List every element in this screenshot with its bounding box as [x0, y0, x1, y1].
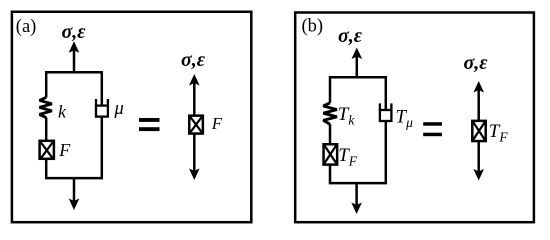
panel (a) frame [12, 12, 251, 222]
equivalent fractional element T_F box (b) [472, 121, 485, 141]
svg-text:σ,ε: σ,ε [464, 52, 489, 74]
wire: bottom bar with branch stubs (b) [330, 121, 386, 184]
wire: top bar with branch stubs (a) [46, 72, 102, 105]
svg-text:μ: μ [114, 99, 124, 119]
wire: bottom bar with branch stubs (a) [46, 117, 102, 179]
panel (b) frame [295, 13, 534, 223]
svg-text:F: F [211, 114, 223, 133]
svg-text:F: F [58, 140, 71, 160]
wire: left branch between spring and T_F box (b) [329, 124, 332, 144]
fractional element F box (a) [40, 141, 54, 159]
equals sign (a) [139, 118, 160, 131]
equals sign (b) [423, 122, 442, 136]
svg-text:(a): (a) [16, 17, 37, 37]
fractional element T_F box (b) [324, 144, 338, 164]
equivalent top arrow (a) [189, 74, 200, 116]
dashpot mu (a) [96, 99, 108, 117]
wire: left branch between spring and F box (a) [45, 118, 48, 141]
equivalent fractional element F box (a) [189, 116, 203, 134]
equivalent top arrow (b) [473, 81, 484, 122]
equivalent bottom arrow (a) [189, 134, 200, 181]
svg-text:σ,ε: σ,ε [338, 25, 363, 47]
spring Tk (b) [323, 103, 337, 124]
spring k (a) [40, 97, 52, 117]
bottom load arrow (a) [69, 178, 80, 210]
wire: top bar with branch stubs (b) [330, 77, 386, 110]
svg-text:σ,ε: σ,ε [62, 21, 87, 43]
svg-text:k: k [58, 102, 67, 122]
top load arrow (a) [69, 41, 80, 72]
svg-text:(b): (b) [302, 16, 324, 36]
bottom load arrow (b) [351, 183, 362, 214]
top load arrow (b) [352, 48, 363, 78]
dashpot T_mu (b) [380, 103, 392, 121]
svg-text:σ,ε: σ,ε [181, 49, 206, 71]
equivalent bottom arrow (b) [473, 140, 484, 181]
